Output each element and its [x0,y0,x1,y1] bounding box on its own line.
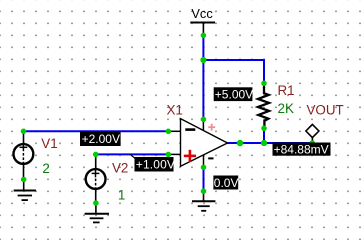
svg-text:2K: 2K [278,101,294,116]
op-amp inverting input marker [185,128,195,131]
svg-text:VOUT: VOUT [307,102,344,117]
node V1 bottom terminal [21,177,26,182]
svg-text:X1: X1 [167,102,183,117]
value box +84.88mV [273,142,331,156]
svg-text:Vcc: Vcc [191,6,213,21]
Vcc supply symbol [190,23,215,36]
ground below V2 [85,203,109,222]
op-amp negative supply marker [208,157,213,159]
svg-text:+2.00V: +2.00V [82,132,120,146]
node op-amp non-inverting input [166,152,171,157]
op-amp U1 triangle body [181,119,228,167]
node V2 top junction [93,152,98,157]
node R1 bottom terminal [261,126,266,131]
value box +5.00V [214,87,253,101]
svg-text:+1.00V: +1.00V [136,158,175,172]
svg-text:2: 2 [42,161,49,176]
node ground mid terminal [201,189,206,194]
svg-text:R1: R1 [278,83,295,98]
ground below V1 [14,180,36,201]
svg-text:V2: V2 [112,161,128,176]
svg-text:+84.88mV: +84.88mV [274,142,329,156]
wire op-amp negative supply pin to ground [203,167,205,191]
svg-text:+5.00V: +5.00V [215,88,253,102]
svg-text:V1: V1 [41,136,57,151]
node output junction at R1 [261,140,267,146]
node R1 top terminal [261,81,266,86]
value box 0.0V [213,176,238,190]
ground below op-amp negative supply [192,191,215,211]
node op-amp negative supply [201,165,206,170]
op-amp non-inverting input pin [171,153,181,155]
svg-text:1: 1 [118,187,125,202]
op-amp non-inverting input marker [184,150,196,162]
node V2 bottom terminal [93,200,98,205]
node op-amp positive supply [201,117,206,122]
wire op-amp output to VOUT [228,142,314,144]
voltage source V2 [86,154,106,203]
node op-amp output terminal [237,140,243,146]
leader line from wire to +1.00V box [130,154,137,159]
value box +2.00V [80,132,121,147]
op-amp negative supply pin [203,156,205,168]
op-amp positive supply pin [202,121,204,131]
wire V2 output to op-amp non-inverting input [96,153,169,155]
wire Vcc down to op-amp positive supply pin [202,35,204,119]
resistor R1 [258,83,269,128]
VOUT probe diamond [306,124,319,143]
node Vcc terminal [201,33,206,38]
wire Vcc branch to R1 top [203,60,264,83]
wire V1 output to op-amp inverting input [24,130,169,132]
node V1 top junction [21,129,26,134]
node Vcc branch junction [200,57,206,63]
op-amp positive supply marker [208,124,215,131]
wire R1 bottom to output node [263,128,265,143]
node VOUT probe terminal [310,140,315,145]
node op-amp inverting input [166,129,171,134]
svg-text:0.0V: 0.0V [214,176,239,190]
voltage source V1 [14,131,34,179]
op-amp inverting input pin [171,130,181,132]
value box +1.00V [135,157,176,172]
